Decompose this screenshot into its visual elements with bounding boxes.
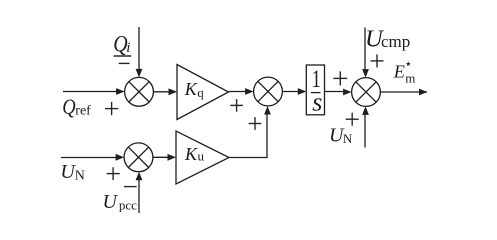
svg-text:m: m: [405, 71, 415, 86]
svg-text:s: s: [312, 88, 322, 117]
svg-text:K: K: [184, 144, 198, 164]
svg-text:u: u: [198, 148, 205, 163]
svg-text:N: N: [343, 131, 353, 146]
svg-text:Q: Q: [62, 94, 75, 119]
svg-text:cmp: cmp: [381, 32, 410, 51]
svg-text:N: N: [75, 169, 85, 184]
svg-text:K: K: [184, 79, 198, 99]
svg-text:E: E: [393, 61, 405, 81]
svg-text:i: i: [126, 40, 130, 56]
svg-text:q: q: [197, 85, 204, 100]
svg-text:ref: ref: [75, 104, 91, 119]
svg-text:pcc: pcc: [119, 198, 137, 213]
svg-text:U: U: [103, 191, 119, 213]
